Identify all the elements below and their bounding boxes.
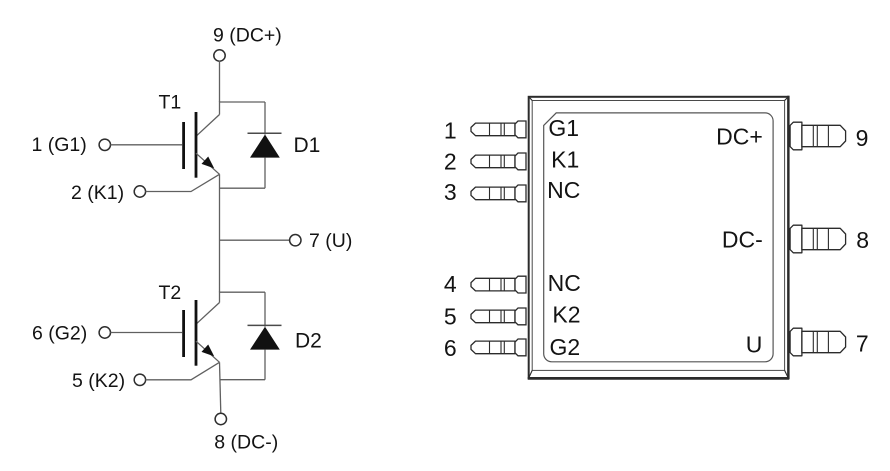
- wire G2 gate: [110, 332, 182, 334]
- wire D1 anode to rail: [220, 187, 266, 189]
- wire T1 collector junction to D1 cathode: [220, 101, 266, 103]
- package body outline: [528, 96, 790, 379]
- svg-text:5: 5: [444, 303, 457, 329]
- IGBT T2: [182, 300, 219, 366]
- package inner outline: [544, 113, 773, 362]
- svg-text:5 (K2): 5 (K2): [72, 370, 125, 392]
- svg-text:K1: K1: [551, 146, 579, 172]
- diode D2: [248, 292, 282, 380]
- wire collector stub T2: [219, 292, 221, 303]
- wire output node to terminal 7: [220, 239, 290, 241]
- wire K1 to emitter node: [146, 174, 220, 191]
- svg-text:DC+: DC+: [716, 124, 763, 150]
- svg-text:NC: NC: [548, 270, 581, 296]
- svg-text:T1: T1: [159, 92, 182, 114]
- pin 5 lead: [471, 308, 526, 325]
- pin 8 lead: [790, 225, 846, 253]
- svg-text:D1: D1: [294, 134, 321, 157]
- terminal 5 (K2): [134, 374, 145, 385]
- svg-text:7: 7: [856, 331, 869, 357]
- svg-text:2: 2: [444, 149, 457, 175]
- pin 2 lead: [471, 153, 526, 170]
- wire K2 to emitter node: [146, 362, 220, 380]
- pin 3 lead: [471, 185, 526, 202]
- svg-text:U: U: [746, 331, 763, 357]
- wire G1 gate: [110, 144, 182, 146]
- pin 9 lead: [790, 122, 846, 150]
- terminal 2 (K1): [134, 186, 145, 197]
- wire collector stub: [219, 101, 221, 114]
- terminal 6 (G2): [99, 327, 110, 338]
- diode D1: [248, 102, 282, 188]
- svg-text:T2: T2: [159, 282, 182, 304]
- svg-text:NC: NC: [547, 177, 580, 203]
- terminal 1 (G1): [99, 139, 110, 150]
- svg-text:D2: D2: [295, 329, 322, 352]
- terminal 9 (DC+): [214, 50, 225, 61]
- wire DC+ rail down to T1 collector junction: [219, 61, 221, 102]
- svg-text:9 (DC+): 9 (DC+): [213, 25, 282, 47]
- IGBT T1: [182, 112, 219, 178]
- svg-text:2 (K1): 2 (K1): [71, 182, 124, 204]
- svg-text:K2: K2: [552, 302, 580, 328]
- svg-text:G1: G1: [548, 115, 579, 141]
- svg-text:1: 1: [444, 117, 457, 143]
- wire T2 emitter rail to DC-: [220, 362, 221, 413]
- svg-text:1 (G1): 1 (G1): [32, 134, 87, 156]
- terminal 8 (DC-): [215, 413, 226, 424]
- pin 4 lead: [471, 276, 526, 293]
- svg-text:8: 8: [856, 227, 869, 253]
- wire phase rail T1 emitter to T2 collector: [219, 174, 221, 292]
- svg-text:8 (DC-): 8 (DC-): [214, 432, 278, 454]
- svg-text:G2: G2: [550, 334, 581, 360]
- svg-text:9: 9: [856, 125, 869, 151]
- pin 6 lead: [471, 339, 526, 356]
- wire T2 collector junction to D2 cathode: [220, 291, 266, 293]
- svg-text:4: 4: [444, 271, 457, 297]
- wire T1 collector lead diagonal: [196, 115, 220, 137]
- svg-text:DC-: DC-: [722, 227, 763, 253]
- svg-text:3: 3: [444, 179, 457, 205]
- wire D2 anode to rail: [220, 379, 266, 381]
- svg-text:6 (G2): 6 (G2): [32, 322, 87, 344]
- pin 1 lead: [471, 121, 526, 138]
- svg-text:7 (U): 7 (U): [309, 230, 352, 252]
- svg-text:6: 6: [444, 335, 457, 361]
- wire T2 collector lead diagonal: [196, 303, 220, 325]
- pin 7 lead: [790, 328, 846, 356]
- terminal 7 (U): [290, 235, 301, 246]
